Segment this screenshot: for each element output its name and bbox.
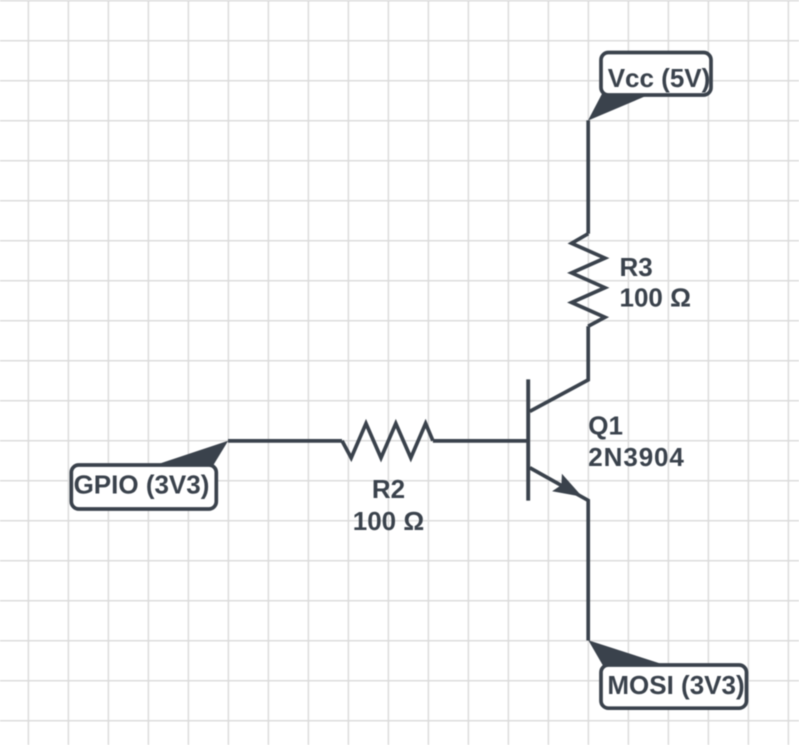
svg-text:100 Ω: 100 Ω [353,506,424,536]
svg-text:R2: R2 [372,474,405,504]
svg-text:GPIO (3V3): GPIO (3V3) [74,470,210,500]
svg-text:100 Ω: 100 Ω [620,283,691,313]
svg-text:2N3904: 2N3904 [588,442,684,472]
svg-text:MOSI (3V3): MOSI (3V3) [607,670,744,700]
svg-text:Q1: Q1 [588,410,623,440]
svg-text:Vcc (5V): Vcc (5V) [608,63,711,93]
svg-text:R3: R3 [620,252,653,282]
